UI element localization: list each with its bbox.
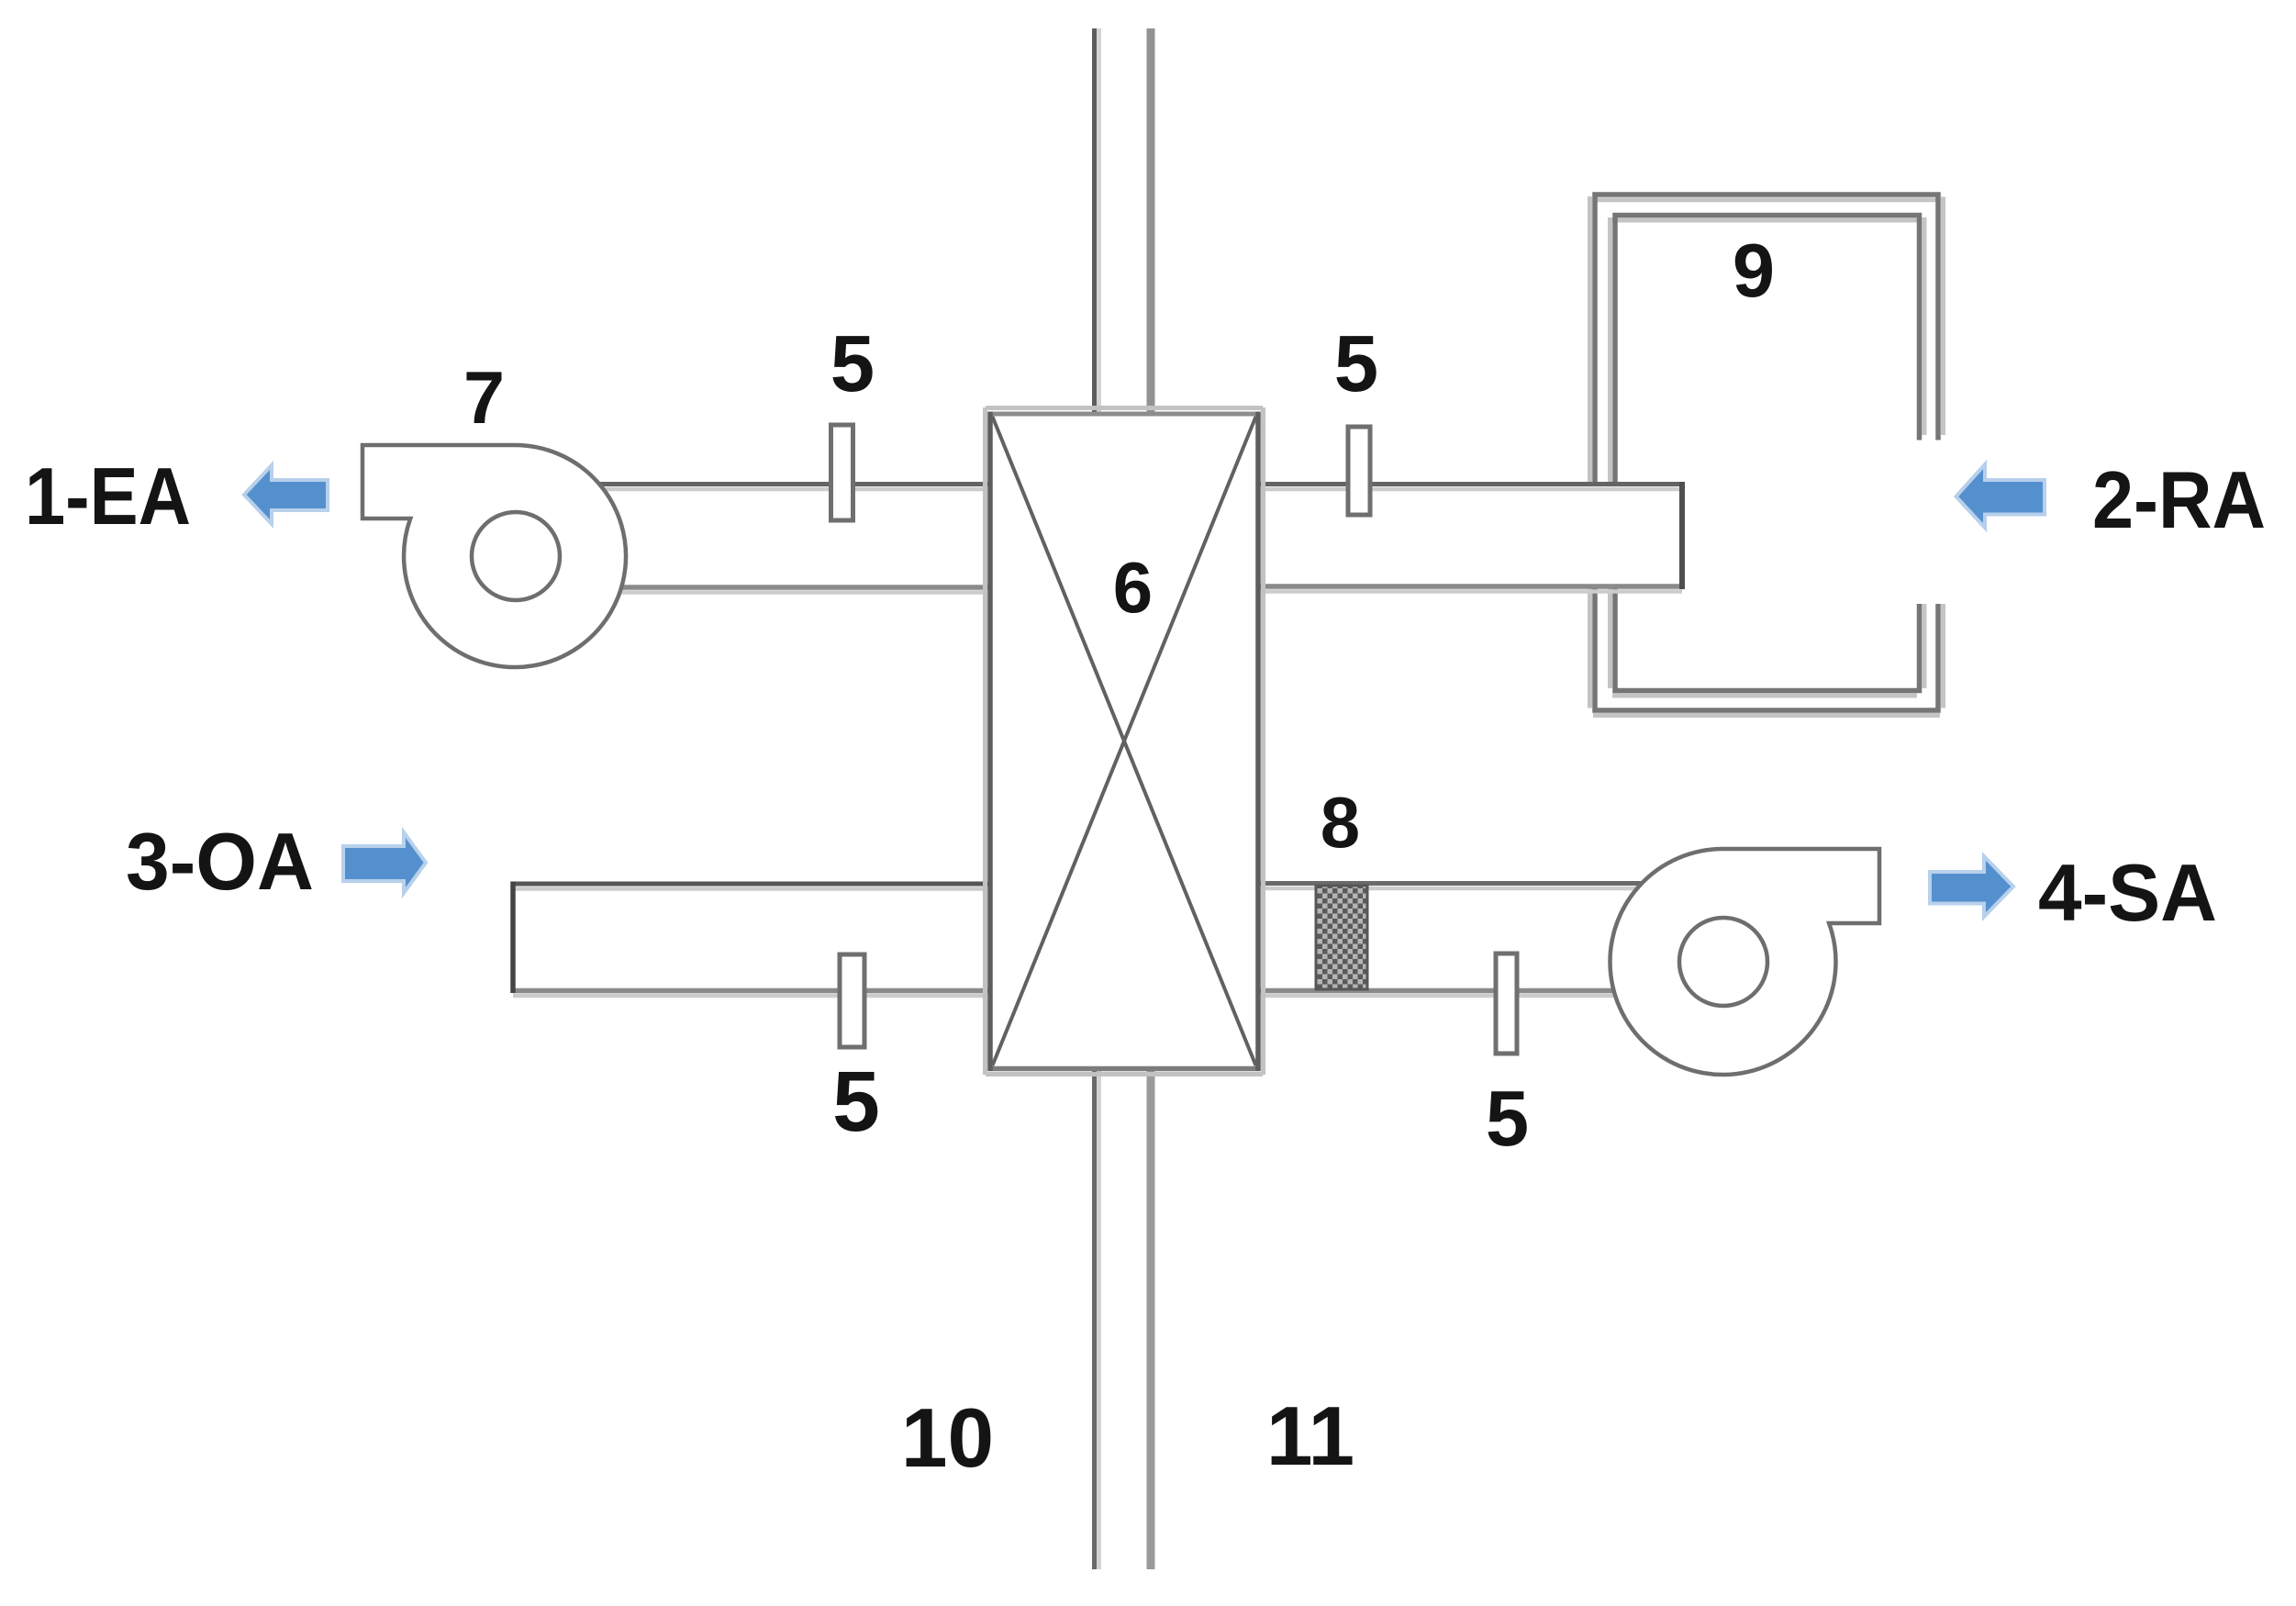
svg-text:3-OA: 3-OA [126,816,314,907]
svg-text:5: 5 [830,319,875,408]
svg-text:1-EA: 1-EA [25,451,191,541]
svg-text:2-RA: 2-RA [2092,454,2266,545]
svg-text:9: 9 [1733,228,1775,313]
svg-text:7: 7 [463,357,505,440]
svg-text:11: 11 [1266,1390,1354,1483]
svg-text:10: 10 [901,1392,994,1485]
svg-text:5: 5 [1486,1076,1529,1163]
svg-text:5: 5 [1334,319,1378,408]
svg-text:5: 5 [832,1054,880,1149]
svg-text:8: 8 [1321,782,1360,863]
svg-text:6: 6 [1113,547,1153,628]
svg-text:4-SA: 4-SA [2038,847,2217,938]
